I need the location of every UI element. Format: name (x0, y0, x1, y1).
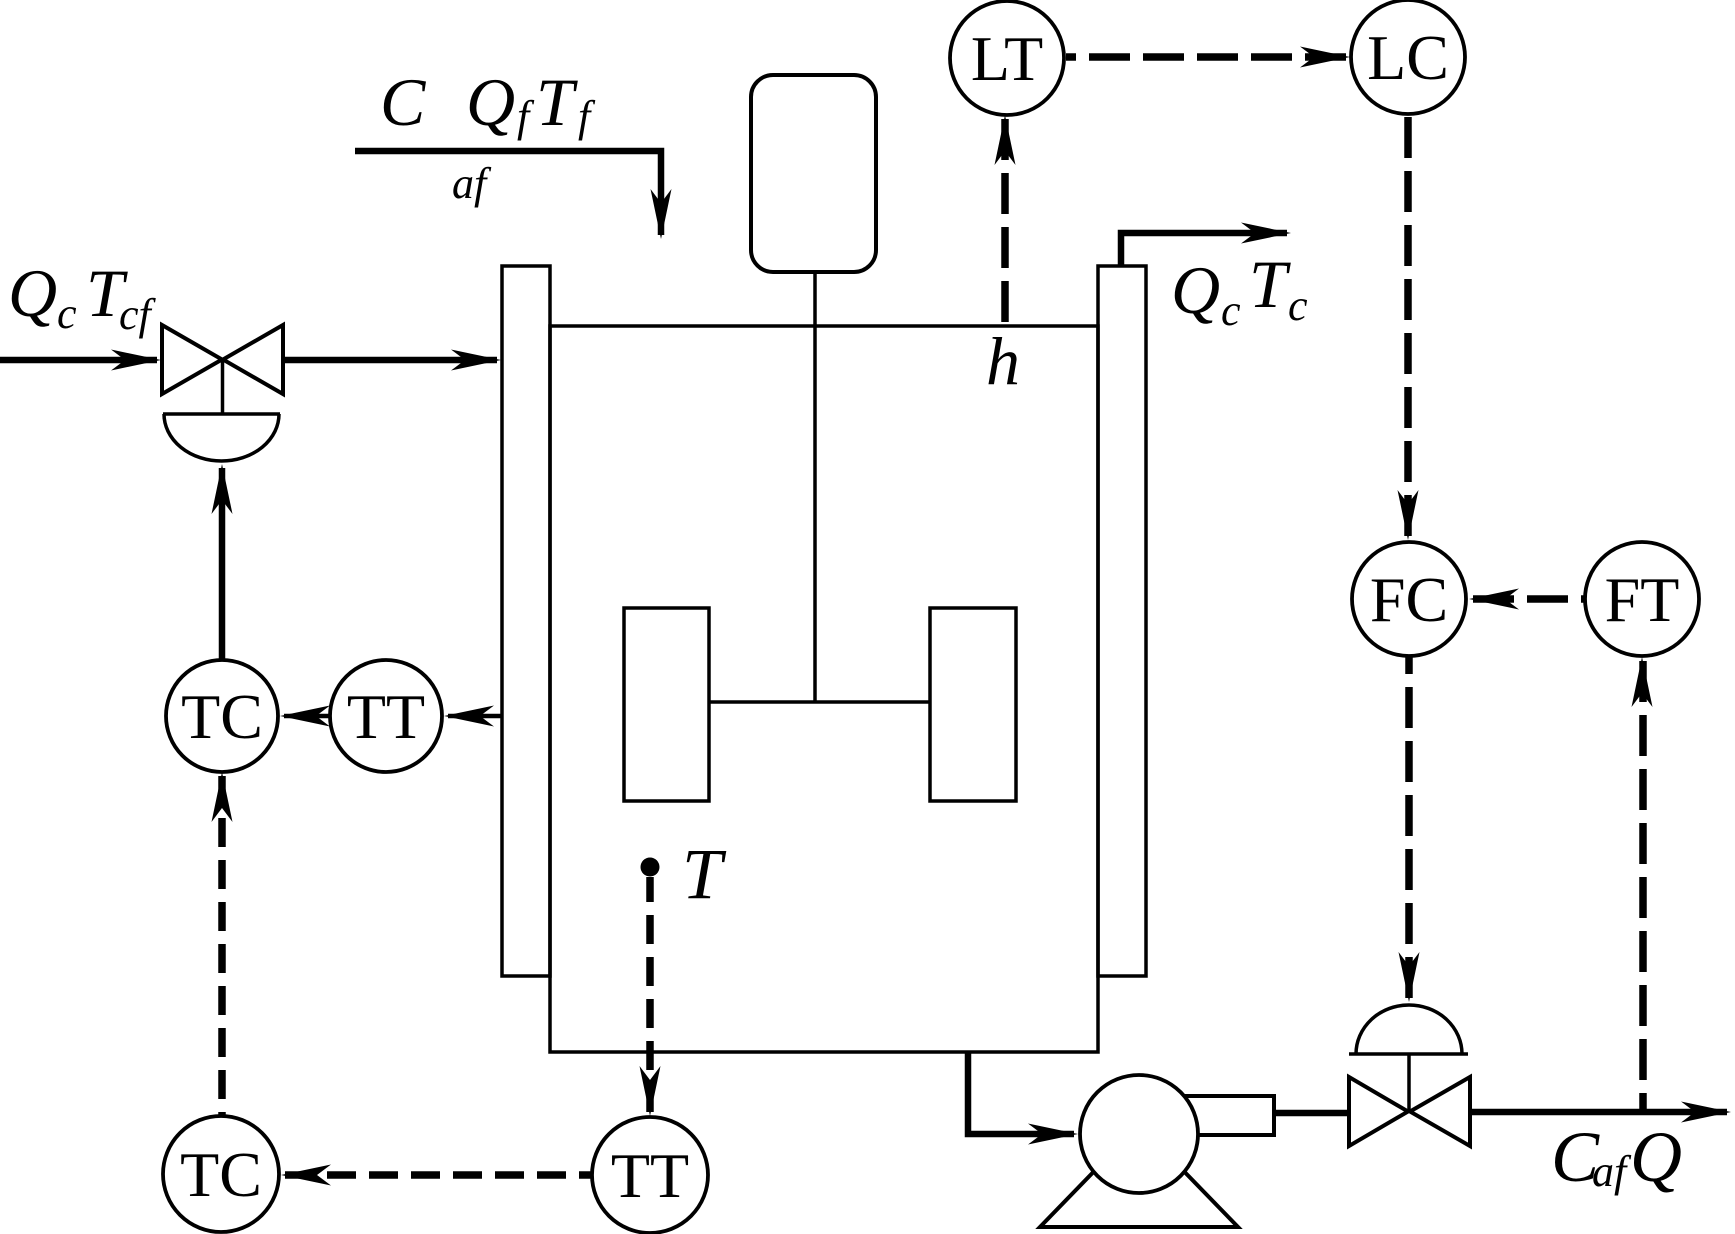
pump outlet nozzle (1184, 1096, 1274, 1135)
jacket left wall (502, 266, 550, 976)
wire TC2 to TC1 (212, 772, 233, 1116)
svg-text:af: af (452, 159, 492, 208)
wire jacket to TT1 (444, 706, 502, 727)
svg-text:T: T (536, 64, 578, 140)
wire TT2 to TC2 (281, 1165, 591, 1186)
instrument LC (1351, 0, 1465, 114)
label Caf Q outflow (1551, 1117, 1682, 1197)
pump stand (1040, 1125, 1238, 1227)
wire valve V1 to jacket (284, 350, 501, 371)
svg-text:LC: LC (1367, 22, 1449, 93)
svg-text:TC: TC (181, 681, 263, 752)
motor M (751, 75, 876, 272)
wire valve V2 outflow Caf Q (1470, 1102, 1731, 1123)
svg-text:FC: FC (1370, 564, 1448, 635)
svg-text:TT: TT (347, 681, 425, 752)
wire coolant outlet Qc Tc (1121, 223, 1291, 267)
wire TT1 to TC1 (280, 706, 330, 727)
instrument TT2 (592, 1117, 708, 1233)
label Caf Qf Tf feed (380, 64, 596, 208)
instrument TC2 (163, 1116, 279, 1232)
svg-text:T: T (1249, 246, 1291, 322)
svg-text:TT: TT (611, 1140, 689, 1211)
instrument FC (1352, 542, 1466, 656)
valve V1 body (162, 325, 283, 414)
node T sensor dot (641, 858, 660, 877)
stirrer shaft (813, 272, 817, 702)
wire TC1 output to valve V1 actuator (212, 464, 233, 660)
valve V2 actuator diaphragm (1349, 1005, 1468, 1054)
wire FC to valve V2 actuator (1399, 657, 1420, 1002)
valve V1 actuator diaphragm (163, 414, 280, 461)
impeller bar (709, 700, 930, 704)
valve V2 body (1349, 1054, 1470, 1146)
tank vessel (550, 326, 1098, 1052)
wire tank outlet to pump (968, 1052, 1078, 1145)
svg-text:c: c (57, 289, 77, 338)
wire coolant feed into valve V1 (0, 350, 161, 371)
svg-text:LT: LT (971, 23, 1043, 94)
wire LT to LC (1066, 47, 1350, 68)
impeller left blade (624, 608, 709, 801)
wire pump to valve V2 (1274, 1110, 1348, 1117)
svg-text:Q: Q (1171, 252, 1220, 328)
wire FT to FC (1469, 589, 1584, 610)
impeller right blade (930, 608, 1016, 801)
svg-text:FT: FT (1605, 564, 1680, 635)
jacket right wall (1098, 266, 1146, 976)
svg-text:c: c (1288, 281, 1308, 330)
svg-text:Q: Q (466, 64, 515, 140)
wire level tap to LT (995, 115, 1016, 326)
label Qc Tc (1171, 246, 1308, 335)
svg-text:c: c (1221, 286, 1241, 335)
instrument FT (1585, 542, 1699, 656)
pump casing (1080, 1075, 1198, 1193)
instrument LT (950, 1, 1064, 115)
svg-text:h: h (986, 323, 1020, 399)
svg-text:Q: Q (8, 255, 57, 331)
instrument TC1 (166, 660, 278, 772)
svg-text:C: C (380, 64, 426, 140)
svg-text:af: af (1592, 1147, 1632, 1196)
wire T sensor to TT2 (640, 877, 661, 1116)
wire feed inlet line with down arrow (355, 151, 672, 239)
label Qc Tcf coolant feed (8, 255, 157, 339)
svg-text:T: T (682, 834, 727, 914)
wire flow tap to FT (1632, 657, 1653, 1109)
wire LC to FC (1398, 116, 1419, 540)
svg-text:TC: TC (180, 1139, 262, 1210)
svg-text:Q: Q (1630, 1117, 1682, 1197)
instrument TT1 (330, 660, 442, 772)
